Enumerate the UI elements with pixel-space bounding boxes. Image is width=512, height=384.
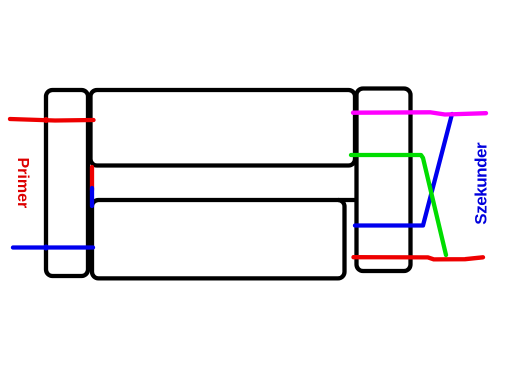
- svg-text:Primer: Primer: [14, 158, 31, 209]
- svg-text:Szekunder: Szekunder: [472, 142, 491, 225]
- wire secondary green: [351, 155, 446, 255]
- wire crossing blob blue: [43, 245, 49, 251]
- wire primary lead bottom (blue): [13, 245, 93, 249]
- wire (bottom box top edge stub to right box): [338, 198, 356, 202]
- wire crossing blob red: [43, 117, 49, 123]
- wire secondary blue: [355, 114, 452, 226]
- secondary winding right box: [357, 89, 411, 272]
- wire secondary red: [354, 257, 484, 259]
- wire primary jumper blue vertical: [90, 188, 94, 206]
- primary winding bottom box: [92, 200, 345, 278]
- transformer core / left winding box: [46, 90, 88, 276]
- wire primary lead top (red): [10, 119, 94, 121]
- wire secondary magenta: [353, 112, 486, 114]
- wire primary jumper red vertical: [90, 167, 94, 190]
- primary winding top box: [91, 90, 356, 166]
